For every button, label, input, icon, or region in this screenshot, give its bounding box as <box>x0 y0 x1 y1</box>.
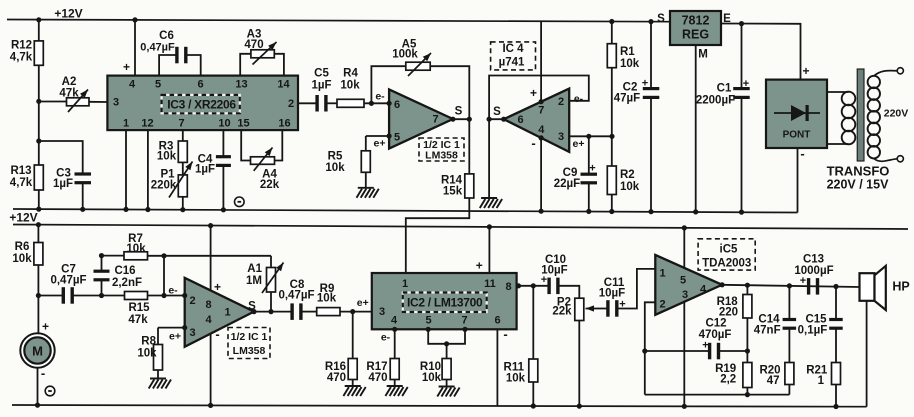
capacitor C9 22µF <box>588 136 590 173</box>
svg-text:220V: 220V <box>884 108 909 120</box>
transformer core <box>857 69 864 161</box>
svg-text:2: 2 <box>288 98 294 110</box>
svg-text:6: 6 <box>394 99 400 111</box>
node R11 branch <box>531 283 536 288</box>
wire IC5 pin3 to bottom rail <box>683 302 685 407</box>
capacitor C1 2200µF <box>741 24 743 89</box>
svg-text:+: + <box>541 274 547 286</box>
svg-text:TRANSFO: TRANSFO <box>827 164 890 179</box>
svg-text:+: + <box>802 64 809 78</box>
svg-text:1: 1 <box>818 375 825 387</box>
svg-text:47k: 47k <box>59 88 79 100</box>
P2 wiper arrow <box>586 308 594 310</box>
svg-text:1µF: 1µF <box>195 164 215 176</box>
svg-text:11: 11 <box>484 278 496 290</box>
svg-text:+: + <box>123 60 130 74</box>
svg-text:S: S <box>493 106 501 118</box>
svg-text:C13: C13 <box>803 254 824 266</box>
svg-text:14: 14 <box>277 79 290 91</box>
resistor R16 470 <box>352 312 354 359</box>
ground below R10 <box>437 387 459 397</box>
wire IC1b output <box>254 311 291 313</box>
svg-text:iC5: iC5 <box>720 244 739 256</box>
resistor R11 10k <box>532 286 534 359</box>
wire 7812 M to rail <box>695 45 697 212</box>
IC3 label box <box>162 95 240 113</box>
svg-text:C6: C6 <box>159 30 174 42</box>
wire IC3 pin4 to +12V <box>134 20 136 76</box>
ground below R5 <box>357 188 379 198</box>
svg-text:+: + <box>642 78 648 90</box>
svg-text:R5: R5 <box>328 151 343 163</box>
svg-text:2: 2 <box>558 96 564 108</box>
wire +12V top rail <box>7 20 670 22</box>
svg-text:5: 5 <box>425 315 431 327</box>
svg-text:7812: 7812 <box>682 14 710 28</box>
wire secondary top terminal <box>874 71 897 76</box>
potentiometer P2 22k <box>575 298 584 320</box>
svg-text:10k: 10k <box>12 253 32 265</box>
capacitor C8 0,47µF <box>290 303 293 320</box>
svg-text:4,7k: 4,7k <box>10 52 33 64</box>
svg-text:e+: e+ <box>357 297 369 309</box>
svg-text:e-: e- <box>168 285 178 297</box>
svg-text:M: M <box>698 49 708 61</box>
rail top-section 0V <box>13 209 798 213</box>
svg-text:10: 10 <box>218 118 230 130</box>
svg-text:S: S <box>455 106 463 118</box>
svg-text:6: 6 <box>197 79 203 91</box>
svg-text:HP: HP <box>892 280 909 294</box>
wire IC5 pin2 input <box>645 302 656 394</box>
capacitor C15 0,1µF <box>833 284 838 289</box>
svg-text:R2: R2 <box>620 169 635 181</box>
svg-text:+: + <box>589 163 595 175</box>
svg-text:1M: 1M <box>246 275 262 287</box>
svg-text:470: 470 <box>368 372 387 384</box>
node C3 branch <box>36 138 41 143</box>
svg-text:3: 3 <box>189 327 195 339</box>
wire secondary bottom terminal <box>874 159 897 162</box>
svg-text:+: + <box>476 259 483 273</box>
capacitor C2 47µF <box>650 22 652 89</box>
resistor R10 10k <box>442 359 451 380</box>
IC1a dashed label box <box>419 138 464 161</box>
svg-text:10k: 10k <box>157 151 177 163</box>
transformer primary wires <box>827 91 849 93</box>
svg-text:10k: 10k <box>620 181 640 193</box>
svg-text:-: - <box>41 366 45 381</box>
voltage regulator 7812 REG <box>670 11 721 45</box>
potentiometer A4 22k between pins 15 and 16 <box>241 130 250 160</box>
svg-text:M: M <box>32 344 43 359</box>
svg-text:3: 3 <box>558 131 564 143</box>
capacitor C6 0,47µF between pins 5 and 6 <box>159 55 176 76</box>
diode inside bridge <box>774 112 820 114</box>
resistor R14 15k <box>468 119 470 174</box>
wire IC2 pin8 output <box>517 285 549 287</box>
svg-text:REG: REG <box>682 28 709 42</box>
wire IC3 pin1 to rail <box>125 130 127 209</box>
capacitor C13 1000µF <box>807 278 810 295</box>
IC2 LM13700 body <box>372 273 517 329</box>
node A2 junction <box>36 99 41 104</box>
capacitor C11 10µF <box>606 300 609 317</box>
wire op2 pin4 to bottom rail <box>210 333 212 405</box>
svg-text:-: - <box>503 327 507 342</box>
svg-text:3: 3 <box>379 306 385 318</box>
capacitor C4 1µF on pin 10 <box>222 130 224 155</box>
svg-text:PONT: PONT <box>783 130 811 141</box>
svg-text:LM358: LM358 <box>425 150 458 162</box>
wire IC5 output <box>722 285 859 287</box>
svg-text:10k: 10k <box>137 348 157 360</box>
capacitor C7 0,47µF <box>38 295 62 297</box>
svg-text:1: 1 <box>123 118 129 130</box>
svg-text:+12V: +12V <box>54 7 82 21</box>
IC4 dashed label box <box>491 42 536 70</box>
svg-text:15k: 15k <box>443 186 463 198</box>
svg-text:R15: R15 <box>128 302 150 314</box>
potentiometer A5 100k feedback <box>371 66 405 103</box>
svg-text:C5: C5 <box>314 68 329 80</box>
svg-text:+: + <box>702 340 708 352</box>
resistor R4 10k <box>326 102 337 104</box>
svg-text:µ741: µ741 <box>499 57 525 69</box>
node mic / C7 <box>36 293 41 298</box>
svg-text:7: 7 <box>178 118 184 130</box>
test point circle bottom <box>45 386 55 396</box>
IC3 XR2206 function generator body <box>107 76 298 131</box>
svg-text:10k: 10k <box>126 243 146 255</box>
svg-text:6: 6 <box>517 114 523 126</box>
wire IC1a output node <box>453 118 469 120</box>
svg-text:16: 16 <box>278 118 290 130</box>
svg-text:100k: 100k <box>392 49 418 61</box>
svg-text:-: - <box>531 136 535 151</box>
svg-text:7: 7 <box>432 114 438 126</box>
svg-text:1/2 IC 1: 1/2 IC 1 <box>231 331 268 343</box>
svg-text:8: 8 <box>205 299 211 311</box>
svg-text:4: 4 <box>205 314 212 326</box>
svg-text:IC2 / LM13700: IC2 / LM13700 <box>407 296 483 310</box>
svg-text:470: 470 <box>327 372 346 384</box>
test point circle <box>235 197 245 207</box>
potentiometer A3 470 between pins 13 and 14 <box>240 54 251 76</box>
wire IC5 pin5 to +12V rail <box>683 228 685 268</box>
svg-text:10k: 10k <box>506 373 526 385</box>
svg-text:1: 1 <box>224 307 230 319</box>
svg-text:IC3 / XR2206: IC3 / XR2206 <box>167 98 236 112</box>
svg-text:-: - <box>215 327 219 342</box>
potentiometer P1 220k <box>182 162 184 175</box>
svg-text:4: 4 <box>700 284 707 296</box>
resistor R19 2,2 <box>743 363 752 388</box>
svg-text:220k: 220k <box>151 180 177 192</box>
wire IC2 pin6 to bottom rail <box>496 329 498 406</box>
resistor R17 470 <box>390 359 399 380</box>
resistor R18 220 <box>745 283 750 288</box>
rail +12V bottom <box>13 225 908 230</box>
wire mic to bottom rail <box>37 368 39 405</box>
svg-text:A1: A1 <box>247 263 262 275</box>
op-amp IC4 µ741 triangle pointing left <box>504 89 570 152</box>
svg-text:6: 6 <box>494 315 500 327</box>
svg-text:R1: R1 <box>620 46 635 58</box>
svg-text:10k: 10k <box>422 372 442 384</box>
IC5 dashed label box <box>698 239 755 270</box>
svg-text:R12: R12 <box>11 40 32 52</box>
op-amp U-IC1a 1/2 LM358 triangle <box>389 89 453 148</box>
svg-text:10k: 10k <box>340 80 360 92</box>
svg-text:10k: 10k <box>620 58 640 70</box>
node top rail / R12 <box>36 17 41 22</box>
svg-text:R6: R6 <box>15 241 30 253</box>
svg-text:13: 13 <box>235 79 247 91</box>
svg-text:IC 4: IC 4 <box>502 43 524 55</box>
svg-text:S: S <box>657 13 665 25</box>
wire bridge minus to rail <box>797 148 799 213</box>
svg-text:47nF: 47nF <box>754 325 781 337</box>
svg-text:3: 3 <box>113 97 119 109</box>
svg-text:47µF: 47µF <box>614 93 640 105</box>
svg-text:e-: e- <box>574 93 584 105</box>
svg-text:10k: 10k <box>317 293 337 305</box>
svg-text:22k: 22k <box>260 179 280 191</box>
capacitor C3 1µF <box>39 141 83 173</box>
svg-text:47: 47 <box>767 375 780 387</box>
wire IC2 pins 5+7 bracket to R10 <box>426 327 431 332</box>
resistor R5 10k <box>366 135 389 137</box>
wire IC4 pin7 to +12V rail <box>540 21 542 102</box>
svg-text:12: 12 <box>141 118 153 130</box>
svg-text:+: + <box>214 280 221 294</box>
svg-text:15: 15 <box>237 118 249 130</box>
ground below IC4 output <box>480 198 502 208</box>
svg-text:4: 4 <box>538 124 545 136</box>
svg-text:e+: e+ <box>374 138 386 150</box>
wire speaker to bottom rail <box>866 301 868 407</box>
svg-text:8: 8 <box>505 281 511 293</box>
rail bottom 0V <box>12 405 867 407</box>
wire IC2 pin11 to +12V <box>488 227 490 273</box>
resistor R3 10k on pin 7 <box>182 130 184 141</box>
wire IC4 pin3 e+ <box>569 135 612 137</box>
microphone M <box>20 333 54 367</box>
resistor R21 1 <box>832 363 841 385</box>
transformer primary coil <box>842 92 856 106</box>
svg-text:C1: C1 <box>717 83 732 95</box>
power amp IC5 TDA2003 triangle <box>655 255 722 315</box>
resistor R9 10k <box>317 308 340 316</box>
svg-text:2200µF: 2200µF <box>696 95 735 107</box>
svg-text:0,47µF: 0,47µF <box>50 275 86 287</box>
svg-text:4,7k: 4,7k <box>10 177 33 189</box>
wire op2 power pin8 from rail <box>210 226 212 291</box>
svg-text:10k: 10k <box>325 162 345 174</box>
svg-text:e+: e+ <box>573 138 585 150</box>
svg-text:220V / 15V: 220V / 15V <box>827 178 890 192</box>
svg-text:5: 5 <box>155 79 161 91</box>
svg-text:e+: e+ <box>169 331 181 343</box>
capacitor C10 10µF <box>547 278 550 295</box>
svg-text:+: + <box>743 78 749 90</box>
svg-text:5: 5 <box>394 132 400 144</box>
svg-text:1µF: 1µF <box>311 80 331 92</box>
svg-text:LM358: LM358 <box>233 345 266 357</box>
svg-text:0,47µF: 0,47µF <box>140 42 175 54</box>
IC1b dashed label box <box>228 328 270 359</box>
svg-text:2: 2 <box>189 295 195 307</box>
node R9 / R16 <box>350 309 355 314</box>
svg-text:5: 5 <box>680 275 686 287</box>
svg-text:+: + <box>42 320 49 334</box>
capacitor C12 470µF <box>645 350 709 352</box>
wire IC4 feedback loop output to pin2 <box>489 76 589 120</box>
svg-text:0,1µF: 0,1µF <box>798 325 828 337</box>
resistor R15 47k <box>102 295 125 297</box>
wire IC4 output S down to ground <box>489 119 504 197</box>
op-amp IC1b 1/2 LM358 triangle <box>185 278 254 347</box>
ground below R16 <box>343 386 365 396</box>
svg-text:+12V: +12V <box>9 211 37 225</box>
capacitor C5 1µF <box>298 102 317 104</box>
resistor R7 10k feedback <box>102 255 125 257</box>
resistor R12 4,7k <box>38 20 40 41</box>
svg-text:2: 2 <box>659 299 665 311</box>
ground below R17 <box>385 386 407 396</box>
svg-text:+: + <box>800 275 806 287</box>
svg-text:470: 470 <box>244 39 263 51</box>
svg-text:TDA2003: TDA2003 <box>702 258 751 270</box>
node R7/e- vertical <box>161 253 166 258</box>
resistor R13 4,7k <box>38 141 40 165</box>
wire IC2 pin4 e- to R17 <box>392 327 397 332</box>
node R18/R19/C12 <box>745 348 750 353</box>
node C7/C16/R15 <box>99 293 104 298</box>
resistor R6 10k <box>37 225 39 243</box>
svg-text:47k: 47k <box>128 314 148 326</box>
svg-text:2,2nF: 2,2nF <box>112 277 142 289</box>
svg-text:+: + <box>530 86 537 100</box>
svg-text:1: 1 <box>402 278 408 290</box>
svg-text:e-: e- <box>381 332 391 344</box>
svg-text:-: - <box>800 146 804 161</box>
svg-text:22k: 22k <box>552 306 572 318</box>
node C12 tap <box>642 348 647 353</box>
svg-text:0,47µF: 0,47µF <box>278 290 314 302</box>
node R4 / A5 junction <box>369 101 374 106</box>
svg-text:A2: A2 <box>62 76 77 88</box>
resistor R20 47 <box>785 363 794 385</box>
svg-text:R8: R8 <box>141 336 156 348</box>
svg-text:7: 7 <box>538 105 544 117</box>
wire 7812 E output <box>721 24 801 80</box>
svg-text:e-: e- <box>375 91 385 103</box>
transformer secondary coil <box>868 76 880 88</box>
wire IC3 pin12 to rail <box>147 130 149 209</box>
capacitor C16 2,2nF <box>101 256 103 271</box>
resistor R2 10k <box>611 136 613 166</box>
svg-text:1µF: 1µF <box>53 178 73 190</box>
potentiometer A2 47k <box>39 101 67 103</box>
svg-text:2,2: 2,2 <box>720 374 736 386</box>
svg-text:22µF: 22µF <box>554 178 580 190</box>
svg-text:R4: R4 <box>343 68 358 80</box>
svg-text:C16: C16 <box>114 265 135 277</box>
bridge rectifier PONT <box>766 80 827 148</box>
svg-text:3: 3 <box>682 289 688 301</box>
svg-text:4: 4 <box>391 315 398 327</box>
svg-text:7: 7 <box>461 315 467 327</box>
wire IC4 pin4 to rail <box>540 138 542 212</box>
svg-text:R13: R13 <box>10 165 31 177</box>
wire R14 to IC2 pin1 jog <box>406 198 470 273</box>
capacitor C14 47nF <box>787 283 792 288</box>
resistor R1 10k <box>611 22 613 44</box>
wire feedback bottom <box>645 394 790 396</box>
svg-text:4: 4 <box>129 79 136 91</box>
svg-text:1: 1 <box>659 268 665 280</box>
resistor R8 10k <box>158 327 185 329</box>
ground below R8 <box>149 379 171 389</box>
IC2 label box <box>403 293 487 313</box>
svg-text:C12: C12 <box>705 318 726 330</box>
loudspeaker HP <box>860 273 875 301</box>
potentiometer A1 1M feedback <box>270 256 272 268</box>
